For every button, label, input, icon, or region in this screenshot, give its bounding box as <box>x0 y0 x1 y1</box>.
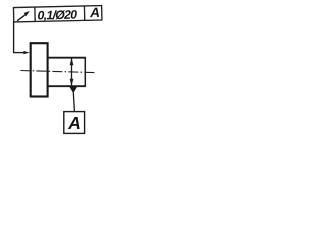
dimension line (vertical, across shaft) <box>71 59 73 86</box>
datum leader line <box>73 93 74 112</box>
feature control frame (tolerance frame) <box>13 6 102 22</box>
cell divider 2 <box>83 6 85 20</box>
leader line horizontal segment <box>13 52 25 54</box>
datum feature box <box>64 112 85 134</box>
datum triangle (filled, on shaft bottom line) <box>70 87 77 93</box>
leader arrowhead pointing at part face <box>23 51 29 54</box>
svg-text:0,1/Ø20: 0,1/Ø20 <box>37 8 77 23</box>
shaft bottom line <box>48 85 86 87</box>
svg-text:A: A <box>89 5 100 20</box>
centerline (axis chain line) <box>20 71 95 73</box>
svg-text:A: A <box>67 113 81 133</box>
runout symbol (slanted arrow) in cell 1 <box>17 11 30 21</box>
part: disc outline (large cylinder, side view) <box>31 43 48 96</box>
leader line from frame (vertical segment) <box>13 21 15 53</box>
cell divider 1 <box>34 7 36 21</box>
shaft right end <box>84 57 86 87</box>
dimension arrowhead up <box>70 58 74 65</box>
shaft top line <box>48 57 86 59</box>
dimension arrowhead down <box>70 79 74 86</box>
